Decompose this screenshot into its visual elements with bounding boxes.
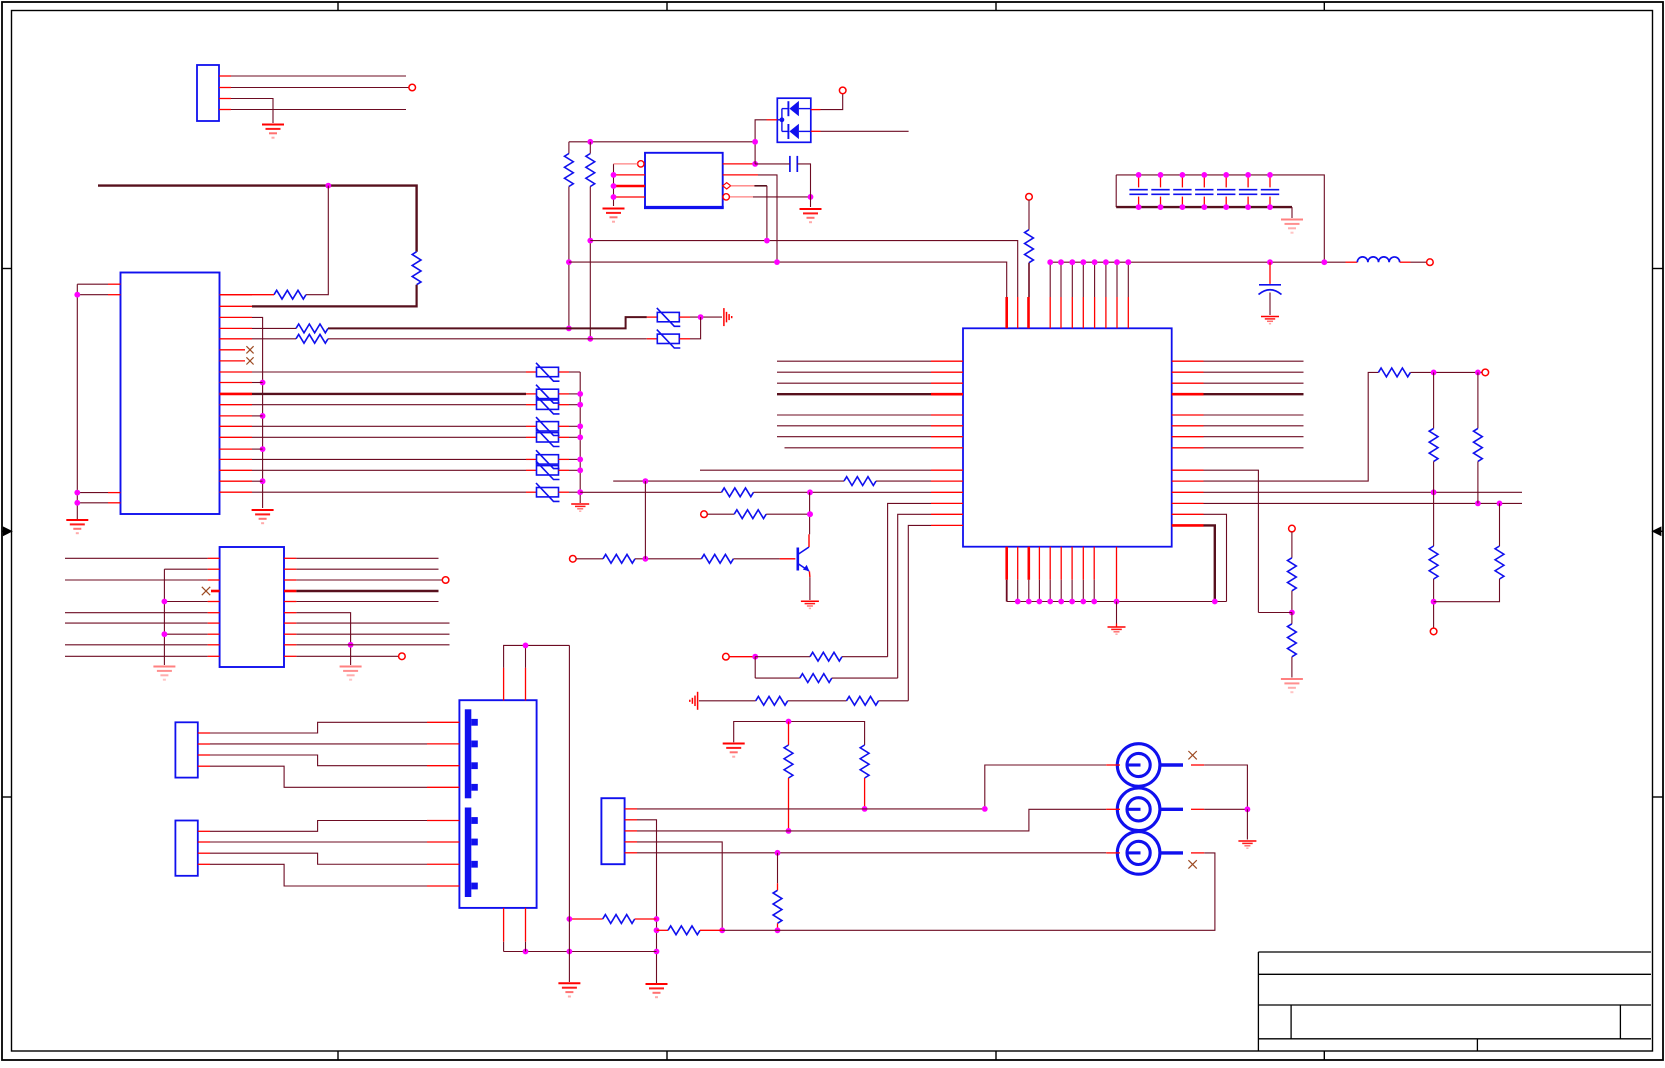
ground GND5 [603, 208, 625, 210]
pin U1.6 wire [731, 185, 755, 187]
wire RV8 to bus [569, 491, 580, 493]
junction U1.5 [808, 194, 814, 200]
cap bank bottom rail [1116, 206, 1292, 208]
pin CON1 L4 [108, 502, 121, 504]
resistor R15 [1288, 558, 1297, 591]
capacitor CB3 [1181, 175, 1183, 188]
wire 678 row b [832, 677, 898, 679]
wire thick bus VCC [98, 186, 417, 252]
pin CON2 top2 [525, 668, 527, 701]
junction VB 393.9 [577, 391, 583, 397]
wire 656-678 link [754, 657, 756, 678]
port P9 [570, 556, 577, 563]
junction CB3 bot [1180, 204, 1186, 210]
ground GND11 [801, 600, 819, 602]
junction 721 [786, 719, 792, 725]
wire U2R 503 [1204, 502, 1523, 504]
wire net TL3 [231, 99, 273, 124]
connector J2 [601, 798, 624, 864]
connector J3 [175, 722, 197, 777]
port P1 [409, 84, 416, 91]
wire U2R 525 thick [1204, 525, 1215, 601]
junction U1.4 [611, 194, 617, 200]
wire CON1 r3 down [252, 317, 263, 508]
wire bus gnd drop [1116, 602, 1118, 624]
junction CB1 top [1136, 172, 1142, 178]
earth E1 [723, 308, 725, 326]
wire J2.3 row [637, 809, 1106, 831]
wire J2.2 drop [637, 820, 657, 983]
wire col1477 b [1477, 461, 1479, 503]
wire net721 [734, 722, 865, 746]
wire J4.4 [210, 864, 427, 886]
junction CB3 top [1180, 172, 1186, 178]
cap bank top rail [1116, 175, 1324, 262]
connector CN1 [1117, 744, 1160, 787]
wire stub RV9 right [679, 316, 690, 318]
junction bus 1116 [1114, 599, 1120, 605]
wire R5 down [568, 187, 570, 329]
junction L2 [74, 292, 80, 298]
wire CN1 right [1204, 765, 1247, 809]
ground GND17 [1238, 840, 1256, 842]
junction 656 node [752, 654, 758, 660]
wire col569 [568, 645, 570, 982]
ground GND3 [252, 509, 274, 511]
wire U3L 623.1 [65, 622, 208, 624]
resistor R22 [756, 696, 788, 705]
ic U2 QFP [963, 328, 1172, 546]
junction VB 470.3 [577, 467, 583, 473]
wire net142 [569, 141, 755, 143]
wire RV5 to bus [569, 436, 580, 438]
wire J2.5 row [637, 852, 1106, 854]
junction gnd col 449.1 [260, 446, 266, 452]
wire U2L 448 [785, 447, 932, 449]
junction U3R 644 [348, 642, 354, 648]
junction net240-766 [764, 238, 770, 244]
wire net TL2 [231, 87, 409, 89]
wire RV9 out [690, 316, 722, 318]
wire row930 c [722, 853, 1215, 930]
port P12 [399, 653, 406, 660]
junction R6-240 [587, 238, 593, 244]
resistor R24 [784, 745, 793, 778]
pin CN1 right stub [1191, 764, 1204, 766]
wire U2L 525 [908, 525, 931, 700]
junction bus 1214 [1212, 599, 1218, 605]
resistor R11 [1429, 428, 1438, 461]
ground GND12 [723, 743, 745, 745]
junction R10-1477 [1475, 370, 1481, 376]
wire U3L 634 [164, 633, 207, 635]
wire stub varistor RV5 left [526, 436, 537, 438]
junction Q1 collector net [807, 511, 813, 517]
title block [1258, 952, 1651, 1051]
wire R6 down [589, 187, 591, 339]
inductor L1 [1357, 257, 1399, 262]
junction bus 1083.3 [1080, 599, 1086, 605]
wire row930 b [700, 929, 722, 931]
connector CON2 comb [459, 700, 536, 908]
wire R10 out [1410, 371, 1482, 373]
pin CON2 bot1 [503, 908, 505, 942]
junction VB 437.3 [577, 434, 583, 440]
resistor R8 [844, 477, 876, 486]
junction VB 404.7 [577, 402, 583, 408]
wire net TL1 [231, 75, 406, 77]
varistor RV9 [657, 312, 679, 321]
ground GND2 [66, 519, 88, 521]
connector J1 [197, 65, 219, 121]
wire U3L 558.3 [65, 557, 208, 559]
junction U2 top 1117.0 [1114, 259, 1120, 265]
pin U1.5 wire [723, 196, 753, 198]
junction base net [643, 556, 649, 562]
wire net TL4 [231, 109, 406, 111]
wire U1 left rail [613, 164, 615, 206]
junction CN2 gnd [1245, 806, 1251, 812]
wire U2R 481 [1204, 372, 1379, 481]
junction L4 [74, 500, 80, 506]
pins J2 [625, 808, 637, 810]
pin U1.3 thick [614, 185, 646, 188]
wire RV1 to bus [569, 371, 580, 373]
junction 569-951 [567, 949, 573, 955]
dual diode D1 box [777, 98, 811, 142]
wire U3R 644 [296, 644, 449, 646]
pins J4 [198, 830, 210, 832]
resistor R27 [603, 915, 635, 924]
junction 656-951 [654, 949, 660, 955]
pin J1.1 [219, 75, 231, 77]
wire row930 stub [657, 929, 669, 931]
border zone ticks and fold arrows [337, 2, 339, 11]
wire col1433 b [1433, 461, 1435, 546]
cap bank left close [1115, 175, 1117, 207]
wire stub RV9 left [647, 316, 658, 318]
wire U2R 372.2 [1204, 371, 1304, 373]
resistor R28 [668, 926, 700, 935]
wire net V1 [252, 371, 526, 373]
ground GND13 [646, 983, 668, 985]
pin U1.6 diamond [723, 183, 731, 189]
wire RV3 to bus [569, 404, 580, 406]
pin D1 common [767, 119, 778, 121]
junction R6-338 [587, 336, 593, 342]
port P4 [1427, 259, 1434, 266]
junction col1433 bus [1431, 599, 1437, 605]
junction U2 top 1083.3 [1080, 259, 1086, 265]
wire U2L 481a [613, 480, 844, 482]
junction 492-1433 [1431, 489, 1437, 495]
resistor R4 [296, 334, 328, 343]
wire U1.6 down [766, 186, 768, 241]
wire CON1 left top [77, 284, 108, 519]
varistor RV4 [537, 422, 559, 431]
wire D1b out [821, 130, 909, 132]
wire pin 481.2 [252, 480, 263, 482]
wire ind out [1411, 261, 1427, 263]
pin Q1 base [780, 558, 796, 560]
wire U1.7 right [758, 175, 777, 262]
wire R6 top stub [589, 142, 591, 154]
port P7 [1289, 525, 1296, 532]
pins U2 right [1172, 360, 1204, 362]
port P2 [839, 87, 846, 94]
port P6 [1430, 628, 1437, 635]
wire col777 b [777, 923, 779, 930]
junction U2 top 1061.0 [1058, 259, 1064, 265]
pin U1.7 [723, 174, 758, 176]
varistor RV10 [657, 334, 679, 343]
no-connect X5 [1188, 860, 1196, 868]
wire 678 row [755, 677, 800, 679]
wire U3R 612 [296, 613, 350, 665]
resistor R17 [734, 510, 766, 519]
pin U1.1 bubble [638, 161, 644, 167]
wire R18 out [635, 558, 701, 560]
resistor R5 [565, 154, 574, 187]
wire RV4 to bus [569, 425, 580, 427]
capacitor CB1 [1138, 175, 1140, 188]
junction U3-601 [162, 599, 168, 605]
junction R10-1433 [1431, 370, 1437, 376]
pin J1.3 [219, 98, 231, 100]
wire bus gnd stub [1116, 624, 1118, 627]
port P11 [442, 577, 449, 584]
wire U2R 514 [1204, 514, 1227, 601]
pins CON1 right stubs [220, 294, 253, 296]
ground GND4 [571, 503, 589, 505]
pin U1.1 wire [614, 163, 638, 165]
wire U3R 558 [296, 557, 438, 559]
transistor Q1 [796, 548, 799, 571]
wire U3R 623 [296, 622, 449, 624]
resistor R19 [701, 554, 733, 563]
wire J4.1 [210, 821, 427, 832]
wire stub varistor RV6 right [559, 458, 570, 460]
junction gnd col 481.2 [260, 478, 266, 484]
junction U2 top 1105.9 [1103, 259, 1109, 265]
junction R6 top [587, 139, 593, 145]
resistor R6 [586, 154, 595, 187]
pin CON2 bot2 [525, 908, 527, 942]
resistor R9 [722, 488, 754, 497]
junction 656-930 [654, 927, 660, 933]
wire ind stub r [1400, 261, 1411, 263]
pin U1.4 [614, 196, 646, 198]
wire stub varistor RV5 right [559, 436, 570, 438]
pins U3 right [284, 557, 296, 559]
wire J4.2 [210, 841, 427, 843]
wire U2R 415.0 [1204, 414, 1304, 416]
wire CN2 right [1204, 808, 1247, 810]
varistor RV7 [537, 466, 559, 475]
wire stub varistor RV4 left [526, 425, 537, 427]
wire Q1 emitter down [809, 577, 811, 600]
wire U2L 415.0 [777, 414, 931, 416]
capacitor CB5 [1225, 175, 1227, 188]
junction 722-930 [719, 927, 725, 933]
port P3 [1026, 194, 1033, 201]
junction U2 top 1072.3 [1069, 259, 1075, 265]
wire U3R 634 [296, 633, 449, 635]
wire U3R 569 [296, 568, 438, 570]
wire Q1 collector up [809, 492, 811, 534]
pins U2 left [931, 360, 963, 362]
resistor R25 [860, 745, 869, 778]
wire RV2 to bus [569, 393, 580, 395]
junction CB4 top [1201, 172, 1207, 178]
junction 777-852 [775, 850, 781, 856]
wire U2L 492a [580, 491, 721, 493]
connector CN3 [1117, 832, 1160, 875]
resistor R1 [412, 252, 421, 285]
wire RC1 stub [788, 722, 790, 746]
wire stub varistor RV3 right [559, 404, 570, 406]
wire R16 down [1291, 657, 1293, 678]
junction R5-328 [566, 326, 572, 332]
wire U3L 612.7 [65, 612, 208, 614]
junction bus 1039.4 [1037, 599, 1043, 605]
wire U2R 383.2 [1204, 382, 1304, 384]
wire row919 stub [569, 918, 602, 920]
junction RV9 [698, 314, 704, 320]
wire col1477 a [1477, 372, 1479, 428]
junction CB5 bot [1223, 204, 1229, 210]
wire C1 left [755, 163, 790, 165]
pins U2 bottom [1005, 547, 1008, 580]
junction 656-919 [654, 916, 660, 922]
wire RV6 to bus [569, 458, 580, 460]
wire 700 row b [788, 700, 847, 702]
wire D1a to port [821, 94, 843, 110]
diode D1 common [781, 109, 783, 132]
resistor R16 [1288, 624, 1297, 657]
pin CN2 left [1106, 808, 1120, 810]
wire U2L 361.2 [777, 360, 931, 362]
junction D1 net142 [752, 139, 758, 145]
ground GND10 salmon [1281, 678, 1303, 680]
wire U3L 644.8 [65, 644, 208, 646]
pin D1b [811, 130, 821, 132]
wire U3 left rail [163, 569, 165, 665]
junction L3 [74, 490, 80, 496]
junction bus 1061.2 [1058, 599, 1064, 605]
wire 700 row c [879, 700, 909, 702]
wire U1.6 seg [754, 185, 767, 187]
pin CON1 L3 [108, 492, 121, 494]
junction gnd col 415.9 [260, 413, 266, 419]
junction 503-1477 [1475, 501, 1481, 507]
wire net V4 [252, 425, 526, 427]
ground GND15 salmon [153, 666, 175, 668]
wire node612 [1258, 612, 1292, 614]
wire U2L 436.7 [777, 436, 931, 438]
pin CN3 left [1106, 852, 1120, 854]
wire R4 left [252, 338, 296, 340]
junction R5-262 [566, 259, 572, 265]
no-connect X4 [1188, 751, 1196, 759]
ground GND8 [1261, 316, 1279, 318]
junction bus 1017.7 [1015, 599, 1021, 605]
junction R25 bot [862, 806, 868, 812]
wire R15 down [1291, 591, 1293, 613]
junction 481-645 [643, 478, 649, 484]
wire U3L 580.0 [65, 579, 208, 581]
wire U1.5 to gnd col [753, 196, 811, 198]
wire CON2 bot net [504, 942, 526, 952]
no-connect X3 [202, 587, 210, 595]
wire U2L 514 [898, 514, 931, 678]
wire U3R 656 [296, 655, 398, 657]
ground GND7 salmon [1281, 219, 1303, 221]
wire col1499 [1499, 503, 1501, 546]
diode D1a [789, 101, 799, 116]
pins J3 [198, 732, 210, 734]
pin J1.2 [219, 87, 231, 89]
varistor RV1 [537, 367, 559, 376]
capacitor CB4 [1203, 175, 1205, 188]
wire net-pwr [1050, 261, 1345, 263]
wire CN2 gnd drop [1246, 809, 1248, 839]
junction VB 459.4 [577, 457, 583, 463]
wire pin 382.5 [252, 382, 263, 384]
ground GND16 salmon [340, 666, 362, 668]
junction CB5 top [1223, 172, 1229, 178]
wire col1433 a [1433, 372, 1435, 428]
junction U1.2 [611, 172, 617, 178]
wire stub varistor RV7 right [559, 469, 570, 471]
junction pwr cap [1267, 259, 1273, 265]
resistor R26 [773, 890, 782, 923]
pin CON2 top1 [503, 668, 505, 701]
junction net262-777 [774, 259, 780, 265]
junction bus 1050.2 [1047, 599, 1053, 605]
varistor RV5 [537, 433, 559, 442]
wire U2R 470 [1204, 470, 1259, 612]
wire 700 row [699, 700, 756, 702]
wire R25 down [864, 778, 866, 809]
wire R19 out [733, 558, 779, 560]
wire U2L 492b [754, 491, 932, 493]
ground GND6 [800, 208, 822, 210]
wire U3L 656.3 [65, 655, 208, 657]
wire J3.3 [210, 755, 427, 766]
wire stub varistor RV7 left [526, 469, 537, 471]
wire stub varistor RV1 left [526, 371, 537, 373]
wire R3 left [252, 327, 296, 329]
wire P8 to R17 [707, 513, 734, 515]
pin CON1 L1 [108, 283, 121, 285]
junction CB2 top [1158, 172, 1164, 178]
wire P3 down [1028, 200, 1030, 230]
ground GND1 [262, 124, 284, 126]
wire R7 down [1028, 263, 1030, 297]
junction 503-1499 [1497, 501, 1503, 507]
resistor R20 [810, 652, 842, 661]
wire U2L 372.2 [777, 371, 931, 373]
junction bus 1094.2 [1091, 599, 1097, 605]
wire J3.2 [210, 743, 427, 745]
wire net V8 [252, 491, 526, 493]
connector CN2 [1117, 788, 1160, 831]
pin Q1 collector [808, 534, 810, 547]
cap bank gnd drop [1291, 207, 1293, 218]
junction CB2 bot [1158, 204, 1164, 210]
wire U3R 591 thick [296, 590, 438, 592]
